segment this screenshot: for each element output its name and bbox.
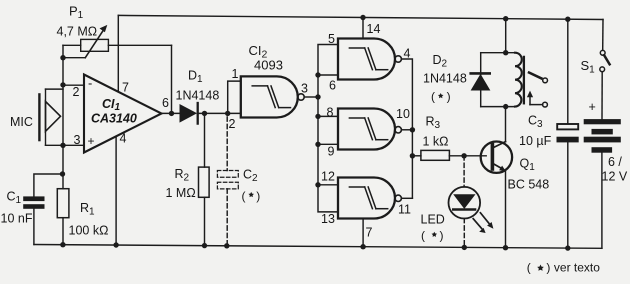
LED D3 <box>449 187 494 233</box>
wire R1 column <box>62 145 64 188</box>
wire P1 right lead <box>108 44 171 46</box>
wire LED dashed bottom <box>463 219 465 248</box>
wire bottom ground rail <box>34 245 602 249</box>
wire R3 to base <box>449 155 486 157</box>
wire relay top <box>481 52 515 54</box>
microphone MIC <box>39 89 60 145</box>
op-amp U1 CI1 CA3140 <box>84 75 162 153</box>
capacitor C3 electrolytic <box>557 124 579 142</box>
switch S1 <box>600 50 610 71</box>
wire pin7 ground <box>362 219 364 247</box>
wire D1 to gate1 pin2 <box>198 112 241 114</box>
NAND gate U2c pins 8,9,10 <box>338 109 401 150</box>
wire R3 left lead <box>412 155 421 157</box>
wire R1 bottom lead <box>62 218 64 245</box>
svg-text:9: 9 <box>328 145 335 159</box>
svg-text:): ) <box>440 229 444 243</box>
capacitor C1 <box>23 196 44 208</box>
wire S1 to battery <box>601 72 603 119</box>
battery B1 <box>584 119 621 153</box>
NAND gate U2b pins 5,6,4 <box>338 39 401 80</box>
svg-text:-: - <box>88 76 92 91</box>
svg-text:4: 4 <box>404 47 411 61</box>
wire op-amp pin7 supply <box>117 15 119 91</box>
svg-text:C2: C2 <box>243 168 258 185</box>
wire gate3 output <box>402 129 413 131</box>
svg-text:CA3140: CA3140 <box>91 112 137 126</box>
svg-text:6: 6 <box>162 96 169 110</box>
wire pin12 stub <box>318 184 338 186</box>
diode D1 <box>180 103 198 124</box>
svg-text:R2: R2 <box>175 167 190 184</box>
svg-text:2: 2 <box>229 117 236 131</box>
svg-text:7: 7 <box>122 81 129 95</box>
wire P1 left lead <box>63 44 81 46</box>
svg-text:3: 3 <box>74 133 81 147</box>
svg-text:5: 5 <box>328 32 335 46</box>
svg-text:R3: R3 <box>426 115 441 132</box>
wire input bus <box>318 45 338 212</box>
svg-text:C1: C1 <box>7 190 22 207</box>
wire pin9 stub <box>318 143 338 145</box>
wire C1 top lead <box>34 174 63 196</box>
svg-text:+: + <box>589 100 596 114</box>
wire S1 top lead <box>602 20 604 51</box>
wire P1 wiper link <box>63 57 85 59</box>
transistor Q1 BC548 <box>481 142 512 173</box>
wire gate1 output <box>304 96 318 98</box>
wire mic top <box>46 88 64 90</box>
wire gate4 output <box>402 197 413 199</box>
svg-text:(: ( <box>242 189 246 203</box>
wire op-amp pin4 ground <box>115 136 117 245</box>
wire collector to relay <box>505 107 507 142</box>
svg-text:1: 1 <box>232 67 239 81</box>
wire D2 branch <box>480 53 482 107</box>
svg-text:): ) <box>447 90 451 104</box>
relay contact <box>527 73 548 108</box>
svg-text:6 /: 6 / <box>608 155 622 169</box>
svg-text:(: ( <box>527 261 531 275</box>
wire gate2 output <box>402 59 413 198</box>
svg-text:P1: P1 <box>69 4 84 22</box>
svg-text:4: 4 <box>120 132 127 146</box>
resistor R1 <box>57 189 69 218</box>
wire battery to ground <box>601 153 603 249</box>
svg-text:D1: D1 <box>188 69 203 86</box>
svg-text:1 MΩ: 1 MΩ <box>166 186 196 200</box>
svg-text:(: ( <box>421 229 425 243</box>
relay coil K1 <box>515 53 522 107</box>
svg-text:11: 11 <box>398 203 411 217</box>
wire left input column <box>62 45 64 145</box>
wire pin3 row <box>46 144 85 146</box>
svg-text:13: 13 <box>321 212 335 226</box>
svg-text:Q1: Q1 <box>520 157 536 174</box>
svg-text:LED: LED <box>421 213 445 227</box>
capacitor C2 (dashed optional) <box>217 171 238 189</box>
wire relay supply <box>505 19 507 53</box>
svg-text:12: 12 <box>321 170 335 184</box>
wire pin8 stub <box>318 115 338 117</box>
wire C2 dashed bottom lead <box>226 189 228 246</box>
wire relay bottom <box>481 106 515 108</box>
svg-text:7: 7 <box>366 226 373 240</box>
svg-text:MIC: MIC <box>10 115 33 129</box>
wire pin14 supply <box>362 18 364 39</box>
wire LED dashed top <box>463 156 465 187</box>
wire C3 bottom lead <box>567 142 569 248</box>
svg-text:2: 2 <box>73 85 80 99</box>
svg-text:1N4148: 1N4148 <box>423 72 467 86</box>
svg-text:8: 8 <box>327 106 334 120</box>
wire C1 bottom lead <box>33 209 35 245</box>
svg-text:12 V: 12 V <box>602 170 628 184</box>
wire R2 top lead <box>204 113 206 167</box>
diode D2 flyback <box>471 73 490 90</box>
wire emitter to ground <box>505 171 507 248</box>
svg-text:100 kΩ: 100 kΩ <box>69 224 109 238</box>
svg-text:D2: D2 <box>433 53 448 70</box>
resistor R3 <box>421 150 450 160</box>
wire op-amp output <box>162 112 181 114</box>
NAND gate U2a pins 1,2,3 <box>241 76 304 117</box>
svg-text:3: 3 <box>301 82 308 96</box>
svg-text:6: 6 <box>329 79 336 93</box>
svg-text:): ) <box>546 261 550 275</box>
wire pin6 stub <box>318 74 338 76</box>
wire C3 top lead <box>567 19 569 123</box>
svg-text:4,7 MΩ: 4,7 MΩ <box>57 25 98 39</box>
wire pin2 stub <box>63 84 84 86</box>
wire feedback vertical <box>171 45 173 113</box>
svg-text:10 nF: 10 nF <box>1 212 33 226</box>
svg-text:ver texto: ver texto <box>554 261 600 275</box>
NAND gate U2d pins 12,13,11 <box>338 177 401 218</box>
resistor R2 <box>199 167 210 197</box>
wire R2 bottom lead <box>204 197 206 245</box>
svg-text:S1: S1 <box>581 58 596 76</box>
svg-text:C3: C3 <box>528 114 543 131</box>
wire top supply rail <box>118 15 603 19</box>
svg-text:): ) <box>256 189 260 203</box>
potentiometer P1 <box>81 25 109 58</box>
relay core <box>523 57 525 103</box>
svg-text:(: ( <box>431 90 435 104</box>
svg-text:1 kΩ: 1 kΩ <box>423 135 449 149</box>
svg-text:14: 14 <box>367 22 381 36</box>
svg-text:R1: R1 <box>80 201 95 218</box>
wire gate1 pin1 branch <box>228 81 241 113</box>
svg-text:1N4148: 1N4148 <box>176 89 220 103</box>
wire C2 dashed top lead <box>226 117 228 171</box>
svg-text:10: 10 <box>396 107 410 121</box>
svg-text:4093: 4093 <box>254 58 283 73</box>
svg-text:BC 548: BC 548 <box>508 178 550 192</box>
svg-text:+: + <box>88 134 95 148</box>
svg-text:10 µF: 10 µF <box>519 134 552 148</box>
